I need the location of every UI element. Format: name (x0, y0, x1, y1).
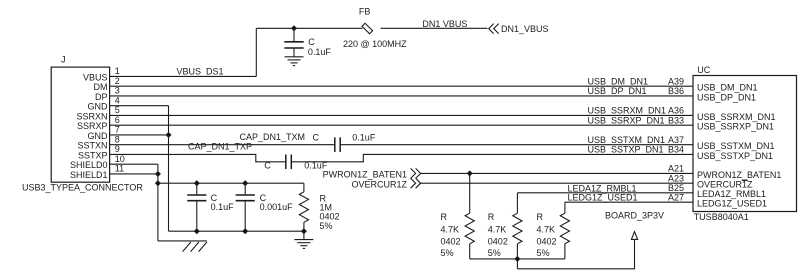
svg-text:3: 3 (115, 86, 120, 96)
svg-text:DM: DM (94, 82, 108, 92)
wire GND vertical bus (168, 106, 170, 232)
wire GND pin4 stub (110, 105, 169, 107)
svg-text:PWRON1Z_BATEN1: PWRON1Z_BATEN1 (323, 170, 407, 180)
svg-text:10: 10 (115, 154, 125, 164)
svg-text:0.1uF: 0.1uF (352, 132, 376, 142)
svg-text:USB_DM_DN1: USB_DM_DN1 (588, 76, 649, 86)
net label PWRON1Z_BATEN1 (323, 170, 407, 180)
wire USB_DP_DN1 (pin3 to chip) (110, 95, 693, 97)
ferrite bead reference designator FB (359, 6, 371, 16)
net label USB_DP_DN1 (588, 86, 647, 96)
power net name BOARD_3P3V (605, 211, 664, 221)
pin number 8 (115, 134, 120, 144)
svg-text:BOARD_3P3V: BOARD_3P3V (605, 211, 664, 221)
pin number 2 (115, 76, 120, 86)
connector pin name SSTXN (pin 8) (77, 141, 107, 151)
svg-text:4.7K: 4.7K (441, 225, 460, 235)
net label USB_SSTXM_DN1 (588, 135, 666, 145)
wire FB rail left segment (256, 27, 362, 29)
svg-text:USB_SSRXP_DN1: USB_SSRXP_DN1 (697, 122, 774, 132)
connector pin name GND (pin 7) (88, 131, 109, 141)
svg-text:LEDG1Z_USED1: LEDG1Z_USED1 (697, 199, 767, 209)
chip pin name PWRON1Z_BATEN1 (697, 170, 781, 180)
capacitor labels C 0.1uF (TXM) (313, 132, 376, 142)
off-page connector chevron PWRON1Z_BATEN1 (411, 168, 421, 178)
chassis ground symbol (158, 241, 207, 252)
connector reference designator J (61, 54, 66, 64)
wire GND pin7 stub (110, 134, 169, 136)
connector value label USB3_TYPEA_CONNECTOR (22, 183, 143, 193)
chip pin number B36 (668, 86, 684, 96)
resistor #3 labels R 4.7K 0402 5% (537, 212, 557, 258)
chip pin name LEDG1Z_USED1 (697, 199, 767, 209)
net label VBUS_DS1 (177, 66, 224, 76)
resistor #1 labels R 4.7K 0402 5% (441, 212, 461, 258)
svg-text:0.001uF: 0.001uF (260, 202, 294, 212)
wire OVERCUR1Z to chip (421, 182, 693, 184)
svg-text:B36: B36 (668, 86, 684, 96)
svg-text:DN1_VBUS: DN1_VBUS (501, 24, 549, 34)
svg-text:USB_SSTXM_DN1: USB_SSTXM_DN1 (588, 135, 666, 145)
net label LEDA1Z_RMBL1 (568, 183, 637, 193)
chip pin name USB_SSRXP_DN1 (697, 122, 774, 132)
wire pin1 VBUS to riser (110, 75, 257, 77)
junction SHIELD1 on shield bus (156, 172, 161, 177)
chip reference designator UC (697, 65, 710, 75)
off-page connector name DN1_VBUS (501, 24, 549, 34)
svg-text:SSRXP: SSRXP (77, 121, 108, 131)
capacitor C 0.001uF (shield bleed C2) (236, 183, 255, 231)
pin number 11 (115, 164, 124, 174)
series capacitor C 0.1uF on TXP (286, 155, 292, 170)
junction on FB rail at C tap (292, 26, 297, 31)
net label CAP_DN1_TXM (240, 132, 306, 142)
resistor R 1M labels R 1M 0402 5% (320, 193, 340, 231)
svg-text:R: R (441, 212, 448, 222)
chip pin name OVERCUR1Z (697, 180, 753, 190)
svg-text:B33: B33 (668, 115, 684, 125)
connector pin name SSRXN (pin 5) (76, 111, 107, 121)
junction shield bus to bleed rail (156, 181, 161, 186)
connector pin name SSTXP (pin 9) (78, 150, 108, 160)
connector pin name DM (pin 2) (94, 82, 108, 92)
off-page connector chevron OVERCUR1Z (411, 178, 421, 188)
connector pin name SHIELD0 (pin 10) (70, 160, 108, 170)
series capacitor C 0.1uF on TXM (335, 137, 340, 152)
wire SHIELD0 pin10 stub (110, 163, 158, 165)
wire SSTXM right of series cap to chip (340, 144, 693, 146)
svg-text:USB_SSRXP_DN1: USB_SSRXP_DN1 (588, 115, 665, 125)
pin number 6 (115, 115, 120, 125)
svg-text:0402: 0402 (488, 236, 508, 246)
connector pin name SHIELD1 (pin 11) (70, 170, 108, 180)
net label DN1 VBUS (422, 19, 467, 29)
svg-text:A37: A37 (668, 135, 684, 145)
capacitor labels C 0.1uF (TXP) (264, 161, 328, 171)
svg-text:A39: A39 (668, 76, 684, 86)
net label CAP_DN1_TXP (188, 142, 252, 152)
connector pin name SSRXP (pin 6) (77, 121, 108, 131)
chip pin number B25 (668, 183, 684, 193)
chip pin number A36 (668, 106, 684, 116)
svg-text:USB_SSTXP_DN1: USB_SSTXP_DN1 (588, 145, 664, 155)
svg-text:5%: 5% (320, 221, 333, 231)
svg-text:CAP_DN1_TXP: CAP_DN1_TXP (188, 142, 252, 152)
svg-text:OVERCUR1Z: OVERCUR1Z (697, 180, 753, 190)
chip pin name USB_SSRXM_DN1 (697, 112, 776, 122)
chip pin name LEDA1Z_RMBL1 (697, 189, 766, 199)
svg-text:11: 11 (115, 164, 124, 174)
svg-text:LEDG1Z_USED1: LEDG1Z_USED1 (568, 193, 638, 203)
capacitor value labels C 0.1uF (308, 37, 332, 57)
wire SSTXP with jog through series cap (110, 154, 286, 161)
svg-text:SHIELD0: SHIELD0 (70, 160, 108, 170)
capacitor C 0.1uF (VBUS decoupling) leads and plates (284, 28, 303, 57)
svg-text:SSRXN: SSRXN (76, 111, 107, 121)
off-page connector chevron DN1_VBUS (489, 24, 499, 34)
net label USB_SSTXP_DN1 (588, 145, 664, 155)
svg-text:USB_SSRXM_DN1: USB_SSRXM_DN1 (697, 112, 776, 122)
ferrite bead FB symbol (362, 23, 373, 34)
svg-text:B34: B34 (668, 145, 684, 155)
junction GND pin7 on vertical bus (166, 133, 171, 138)
net label USB_SSRXM_DN1 (588, 106, 667, 116)
svg-text:GND: GND (88, 131, 109, 141)
svg-text:C: C (308, 37, 315, 47)
junction R2 lead on rail (515, 257, 520, 262)
svg-text:VBUS_DS1: VBUS_DS1 (177, 66, 224, 76)
wire SHIELD1 pin11 stub (110, 173, 158, 175)
svg-text:GND: GND (88, 102, 109, 112)
svg-text:2: 2 (115, 76, 120, 86)
svg-text:5: 5 (115, 105, 120, 115)
resistor R 4.7K pull-up #1 (465, 173, 474, 259)
svg-text:7: 7 (115, 125, 120, 135)
hub controller UC body (TUSB8040A1) (693, 76, 797, 212)
svg-text:PWRON1Z_BATEN1: PWRON1Z_BATEN1 (697, 170, 781, 180)
svg-text:0402: 0402 (441, 236, 461, 246)
capacitor C1 labels C 0.1uF (211, 193, 235, 212)
svg-text:C: C (313, 132, 320, 142)
connector pin name GND (pin 4) (88, 102, 109, 112)
ground symbol under R 1M (294, 231, 313, 248)
svg-text:6: 6 (115, 115, 120, 125)
resistor R 4.7K pull-up #3 (560, 202, 569, 259)
wire USB_DM_DN1 (pin2 to chip) (110, 85, 693, 87)
chip pin name USB_DM_DN1 (697, 83, 758, 93)
junction pull-up R1 tap on PWRON wire (467, 171, 472, 176)
svg-text:USB_DM_DN1: USB_DM_DN1 (697, 83, 758, 93)
wire shield vertical bus (157, 164, 159, 241)
svg-text:220 @ 100MHZ: 220 @ 100MHZ (343, 39, 407, 49)
svg-text:A21: A21 (668, 164, 684, 174)
svg-text:0.1uF: 0.1uF (211, 202, 235, 212)
wire pull-up top rail joining R1 R2 R3 bottoms (470, 258, 565, 260)
svg-text:5%: 5% (488, 248, 501, 258)
svg-text:USB3_TYPEA_CONNECTOR: USB3_TYPEA_CONNECTOR (22, 183, 143, 193)
svg-text:J: J (61, 54, 66, 64)
chip pin number B33 (668, 115, 684, 125)
svg-text:USB_SSRXM_DN1: USB_SSRXM_DN1 (588, 106, 667, 116)
wire shield bleed top rail (158, 182, 304, 184)
svg-text:FB: FB (359, 6, 371, 16)
svg-text:8: 8 (115, 134, 120, 144)
svg-text:5%: 5% (441, 248, 454, 258)
capacitor C2 labels C 0.001uF (260, 193, 294, 212)
resistor R 1M (shield bleed) (299, 183, 308, 231)
chip pin number A27 (668, 193, 684, 203)
wire PWRON1Z_BATEN1 to chip (421, 172, 693, 174)
junction R1M bottom / ground tap (302, 229, 307, 234)
pin number 1 (115, 66, 120, 76)
pin number 3 (115, 86, 120, 96)
resistor R 4.7K pull-up #2 (513, 193, 522, 269)
resistor #2 labels R 4.7K 0402 5% (488, 212, 508, 258)
wire shield bleed bottom rail (GND) (169, 230, 304, 232)
junction cap C1 top tap (194, 181, 199, 186)
svg-text:9: 9 (115, 144, 120, 154)
svg-text:0.1uF: 0.1uF (308, 47, 332, 57)
svg-text:4.7K: 4.7K (488, 225, 507, 235)
chip pin name USB_SSTXM_DN1 (697, 141, 775, 151)
wire LEDA1Z_RMBL1 to chip (517, 192, 693, 194)
chip part number TUSB8040A1 (694, 212, 749, 222)
wire FB rail right segment (381, 27, 488, 29)
svg-text:4.7K: 4.7K (537, 225, 556, 235)
svg-text:0402: 0402 (537, 236, 557, 246)
wire USB_SSRXP_DN1 (pin6 to chip) (110, 124, 693, 126)
net label OVERCUR1Z (351, 179, 407, 189)
svg-text:TUSB8040A1: TUSB8040A1 (694, 212, 749, 222)
wire riser to FB rail (255, 28, 257, 76)
svg-text:C: C (264, 161, 271, 171)
power symbol BOARD_3P3V arrow (631, 232, 637, 240)
svg-text:SSTXP: SSTXP (78, 150, 108, 160)
chip pin name USB_SSTXP_DN1 (697, 151, 773, 161)
pin number 4 (115, 95, 120, 105)
chip pin number A37 (668, 135, 684, 145)
svg-text:DN1 VBUS: DN1 VBUS (422, 19, 467, 29)
svg-text:R: R (537, 212, 544, 222)
chip pin number A21 (668, 164, 684, 174)
svg-text:USB_DP_DN1: USB_DP_DN1 (697, 92, 756, 102)
capacitor C 0.1uF (shield bleed C1) (187, 183, 206, 231)
chip pin number B34 (668, 145, 684, 155)
svg-text:SSTXN: SSTXN (77, 141, 107, 151)
svg-text:5%: 5% (537, 248, 550, 258)
connector J (USB3 Type-A) body (51, 67, 109, 182)
ground symbol under VBUS cap (285, 57, 304, 66)
wire to BOARD_3P3V power symbol (517, 239, 634, 268)
connector pin name DP (pin 3) (95, 92, 108, 102)
junction cap C2 top tap (243, 181, 248, 186)
pin number 7 (115, 125, 120, 135)
svg-text:CAP_DN1_TXM: CAP_DN1_TXM (240, 132, 306, 142)
svg-text:OVERCUR1Z: OVERCUR1Z (351, 179, 407, 189)
net label LEDG1Z_USED1 (568, 193, 638, 203)
chip pin number A23 (668, 174, 684, 184)
svg-text:A36: A36 (668, 106, 684, 116)
wire SSTXP right of cap back up to chip (291, 154, 693, 161)
svg-text:USB_SSTXP_DN1: USB_SSTXP_DN1 (697, 151, 773, 161)
wire SSTXM left of series cap (110, 144, 335, 146)
svg-text:A23: A23 (668, 174, 684, 184)
ferrite bead value 220 @ 100MHZ (343, 39, 407, 49)
chip pin name USB_DP_DN1 (697, 92, 756, 102)
svg-text:USB_SSTXM_DN1: USB_SSTXM_DN1 (697, 141, 775, 151)
svg-text:VBUS: VBUS (83, 72, 108, 82)
pin number 9 (115, 144, 120, 154)
pin number 5 (115, 105, 120, 115)
junction C1 bottom (194, 229, 199, 234)
svg-text:UC: UC (697, 65, 710, 75)
svg-text:USB_DP_DN1: USB_DP_DN1 (588, 86, 647, 96)
junction C2 bottom (243, 229, 248, 234)
svg-text:1: 1 (115, 66, 120, 76)
net label USB_SSRXP_DN1 (588, 115, 665, 125)
svg-text:R: R (488, 212, 495, 222)
pin number 10 (115, 154, 125, 164)
net label USB_DM_DN1 (588, 76, 649, 86)
svg-text:DP: DP (95, 92, 108, 102)
svg-text:4: 4 (115, 95, 120, 105)
wire LEDG1Z_USED1 to chip (565, 201, 693, 203)
chip pin number A39 (668, 76, 684, 86)
connector pin name VBUS (pin 1) (83, 72, 108, 82)
svg-text:A27: A27 (668, 193, 684, 203)
wire USB_SSRXM_DN1 (pin5 to chip) (110, 114, 693, 116)
svg-text:SHIELD1: SHIELD1 (70, 170, 108, 180)
